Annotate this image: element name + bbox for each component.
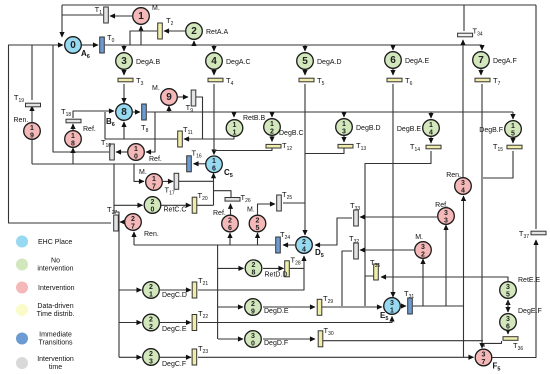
svg-text:Ref.: Ref.: [149, 156, 162, 163]
wire arc T15 out: [483, 151, 513, 178]
wire rail x217 down: [217, 245, 219, 339]
svg-text:2: 2: [421, 251, 425, 258]
svg-text:intervention: intervention: [37, 266, 73, 273]
wire arc T26 out: [214, 191, 231, 197]
place P9 (M): [152, 85, 177, 105]
svg-text:1: 1: [138, 11, 144, 22]
svg-text:2: 2: [256, 217, 260, 224]
transition T25: [277, 190, 293, 211]
wire arc up into P26: [229, 233, 231, 245]
wire arc T1 out to left rail: [62, 14, 103, 16]
transition T1: [95, 5, 109, 23]
wire arc P23 to T23: [160, 356, 191, 358]
wire arc T19 up to bus: [31, 45, 33, 100]
transition T6: [387, 76, 413, 87]
svg-text:2: 2: [149, 324, 153, 331]
wire arc P3 to T3: [123, 70, 125, 75]
wire arc into P11: [233, 112, 235, 117]
svg-text:M.: M.: [139, 169, 147, 176]
wire arc into P5: [304, 45, 306, 51]
wire arc to P28: [218, 267, 244, 269]
svg-text:7: 7: [482, 359, 486, 366]
svg-text:6: 6: [506, 323, 510, 330]
svg-text:7: 7: [478, 55, 484, 66]
svg-text:1: 1: [212, 158, 216, 165]
transition T37: [519, 229, 546, 240]
wire arc T31 out: [413, 305, 463, 307]
svg-text:Ren.: Ren.: [446, 172, 461, 179]
wire rail T37 up: [535, 5, 537, 229]
wire rail T24 outputs: [134, 244, 275, 246]
svg-text:8: 8: [252, 270, 256, 277]
wire arc P35 P36 down: [507, 301, 509, 312]
svg-text:3: 3: [444, 217, 448, 224]
wire arc into P6: [392, 45, 394, 50]
wire arc up into P18: [72, 148, 74, 164]
svg-text:Ref.: Ref.: [435, 202, 448, 209]
wire arc P30 to T30: [263, 338, 315, 340]
wire arc into P14: [430, 112, 432, 118]
wire arc T22 out to P31: [198, 317, 392, 323]
wire arc up into P1: [140, 26, 142, 45]
wire arc up into P2: [193, 41, 195, 45]
transition T20: [192, 191, 208, 213]
wire arc P20 to T20: [162, 204, 191, 206]
place P1 (M): [133, 5, 160, 24]
svg-text:3: 3: [461, 180, 465, 187]
svg-text:8: 8: [121, 107, 127, 118]
place P4 (DegA.C): [206, 53, 251, 70]
legend item Data-driven: [16, 303, 74, 318]
svg-text:M.: M.: [415, 234, 423, 241]
wire arc T2 out: [130, 31, 157, 45]
wire arc T29 out to P31: [322, 306, 382, 308]
transition T10: [101, 138, 114, 160]
wire arc T12 in: [271, 136, 273, 142]
transition T15: [493, 142, 522, 153]
wire top rail: [62, 4, 536, 6]
wire arc P22 to T22: [160, 322, 191, 324]
svg-text:Intervention: Intervention: [38, 285, 75, 292]
wire arc T33 out: [315, 218, 352, 245]
place P24 (D5): [296, 237, 324, 259]
wire arc T18 to P8: [73, 111, 114, 118]
transition T28: [285, 256, 301, 277]
wire arc P10 to T10: [116, 151, 127, 153]
transition T16: [187, 149, 202, 172]
wire arc up into P19: [31, 141, 33, 164]
legend item EHC Place: [16, 236, 72, 248]
svg-text:1: 1: [390, 307, 394, 314]
place P37 (F5): [475, 349, 500, 372]
transition T0: [100, 33, 115, 53]
place P15 (DegB.F): [479, 121, 521, 138]
transition T17: [165, 173, 179, 196]
wire arc P9 to T9: [178, 96, 188, 98]
place P25 (M): [247, 207, 266, 232]
wire arc T13 in: [343, 136, 345, 142]
wire arc P33 to T33: [360, 216, 437, 218]
wire rail Ren column down: [463, 196, 465, 357]
place P36 (DegE.F): [500, 308, 542, 330]
svg-text:1: 1: [134, 146, 138, 153]
wire rail down to T34: [463, 5, 465, 31]
transition T9: [186, 90, 196, 114]
svg-text:DegA.C: DegA.C: [226, 59, 251, 66]
svg-text:2: 2: [251, 301, 255, 308]
wire rail x114 down: [113, 164, 115, 214]
place P11 (RetB.B): [226, 115, 265, 136]
wire arc up into P33: [445, 225, 447, 306]
legend item No: [16, 258, 74, 273]
wire arc T28 out: [290, 267, 304, 269]
svg-text:1: 1: [429, 122, 433, 129]
svg-text:9: 9: [166, 92, 172, 103]
place P5 (DegA.D): [297, 53, 342, 70]
svg-text:0: 0: [251, 340, 255, 347]
wire arc T14 in: [430, 137, 432, 143]
wire arc into P3: [123, 45, 125, 51]
svg-text:6: 6: [228, 225, 232, 232]
svg-text:1: 1: [342, 121, 346, 128]
svg-text:DegD.F: DegD.F: [264, 340, 288, 347]
wire arc P5 to T5: [304, 70, 306, 75]
wire arc T9 out: [196, 97, 203, 139]
wire arc into P15: [512, 112, 514, 119]
svg-text:2: 2: [270, 128, 274, 135]
svg-text:7: 7: [152, 183, 156, 190]
svg-text:1: 1: [233, 122, 237, 129]
wire arc T10 out left: [53, 45, 109, 152]
wire arc P37 to T37: [492, 240, 536, 358]
wire arc T27 to P0 via left frame: [9, 45, 112, 223]
svg-text:1: 1: [71, 133, 75, 140]
transition T4: [208, 76, 234, 87]
transition T24: [276, 230, 291, 253]
wire bus T8 outputs: [147, 111, 513, 113]
wire arc T23 out to P37: [198, 356, 474, 358]
svg-text:3: 3: [506, 316, 510, 323]
wire arc T20 out: [197, 204, 214, 206]
wire arc T17 out: [179, 180, 214, 182]
wire arc down into P0 top: [61, 5, 63, 37]
place P12 (DegB.C): [264, 119, 304, 137]
place P17 (M): [139, 169, 162, 190]
wire arc T36 out to P37: [484, 341, 502, 347]
wire arc into P12: [271, 112, 273, 117]
wire arc T15 in: [512, 138, 514, 143]
legend item Intervention: [16, 356, 74, 371]
wire arc T14 out: [365, 151, 431, 306]
transition T26: [225, 193, 251, 204]
wire arc to P21: [119, 289, 142, 291]
svg-text:4: 4: [302, 246, 306, 253]
svg-text:2: 2: [149, 284, 153, 291]
wire arc T32 out: [342, 251, 352, 306]
legend item Intervention: [16, 282, 75, 294]
svg-text:DegD.E: DegD.E: [264, 308, 289, 315]
svg-text:2: 2: [191, 26, 197, 37]
place P27 (Ren): [125, 214, 159, 238]
svg-text:M.: M.: [152, 85, 160, 92]
wire arc into P4: [213, 45, 215, 51]
svg-text:1: 1: [30, 125, 34, 132]
place P13 (DegB.D): [336, 119, 381, 136]
svg-text:No: No: [51, 258, 60, 265]
wire arc P32 to T32: [360, 249, 414, 251]
svg-text:3: 3: [251, 333, 255, 340]
svg-text:M.: M.: [152, 5, 160, 12]
svg-text:2: 2: [252, 262, 256, 269]
place P10 (Ref): [128, 144, 162, 163]
transition T23: [192, 344, 208, 365]
place P29 (DegD.E): [245, 299, 289, 316]
svg-text:5: 5: [506, 291, 510, 298]
svg-text:4: 4: [429, 129, 433, 136]
transition T32: [349, 234, 359, 259]
transition T3: [118, 76, 144, 87]
transition T18: [61, 107, 81, 123]
place P20 (RetC.C): [144, 197, 186, 214]
svg-text:3: 3: [149, 358, 153, 365]
place P0 (A6): [65, 37, 90, 60]
place P33 (Ref): [435, 202, 454, 224]
wire arc P34 to T34: [462, 40, 464, 177]
wire arc to P20: [114, 204, 143, 206]
wire arc P2 to T2: [164, 30, 185, 32]
transition T5: [299, 76, 325, 87]
svg-text:Ref.: Ref.: [83, 126, 96, 133]
wire arc P1 to T1: [110, 15, 132, 17]
place P18 (Ref): [65, 126, 96, 147]
svg-text:9: 9: [251, 308, 255, 315]
wire arc up into P27: [133, 232, 135, 245]
transition T35: [370, 258, 380, 280]
wire arc P0 to T0: [82, 44, 98, 46]
transition T33: [350, 201, 360, 226]
wire arc P36 P35 up: [507, 300, 509, 312]
wire wire T11 line left corner: [105, 112, 124, 139]
svg-text:3: 3: [444, 210, 448, 217]
place P14 (DegB.E): [397, 120, 439, 137]
transition T36: [503, 337, 523, 352]
wire arc P27 to T27: [120, 221, 125, 223]
wire arc P18 to T18: [72, 124, 74, 148]
wire arc up into P32: [422, 259, 424, 306]
svg-text:RetB.B: RetB.B: [243, 115, 266, 122]
wire arc T30 out to P37: [322, 340, 483, 342]
wire arc P21 to T21: [160, 289, 191, 291]
svg-text:Data-driven: Data-driven: [37, 303, 73, 310]
svg-text:Transitions: Transitions: [39, 340, 73, 347]
svg-text:RetC.C: RetC.C: [164, 207, 187, 214]
wire arc P26 to T26: [230, 204, 232, 215]
wire arc P24 to T24: [283, 244, 295, 246]
place P28 (RetD.D): [245, 260, 287, 279]
wire arc P25 to T25: [258, 204, 276, 215]
transition T13: [338, 141, 366, 152]
svg-text:2: 2: [228, 217, 232, 224]
wire arc P17 to T17: [163, 180, 173, 182]
place P2 (RetA.A): [186, 23, 229, 40]
svg-text:0: 0: [70, 40, 76, 51]
svg-text:3: 3: [121, 56, 127, 67]
svg-text:Ren.: Ren.: [144, 231, 159, 238]
svg-text:4: 4: [461, 187, 465, 194]
svg-text:DegB.E: DegB.E: [397, 126, 421, 133]
place P22 (DegC.E): [143, 314, 187, 333]
svg-text:5: 5: [256, 225, 260, 232]
wire arc T25 out: [283, 202, 305, 204]
wire arc P16 to T16: [194, 163, 207, 165]
place P26 (Ref): [213, 210, 238, 232]
svg-text:2: 2: [302, 239, 306, 246]
svg-text:2: 2: [151, 199, 155, 206]
wire arc T12 out: [214, 148, 272, 151]
svg-text:3: 3: [342, 128, 346, 135]
svg-text:DegA.B: DegA.B: [136, 59, 160, 66]
place P6 (DegA.E): [385, 52, 430, 69]
wire arc up into P9: [168, 106, 170, 112]
svg-text:RetD.D: RetD.D: [265, 272, 288, 279]
place P19 (Ren): [14, 117, 41, 139]
transition T7: [475, 76, 501, 87]
svg-text:1: 1: [233, 129, 237, 136]
transition T14: [410, 142, 441, 153]
svg-text:4: 4: [211, 56, 217, 67]
svg-text:7: 7: [131, 223, 135, 230]
svg-text:9: 9: [30, 132, 34, 139]
wire arc P4 to T4: [213, 70, 215, 75]
svg-text:1: 1: [149, 291, 153, 298]
svg-text:8: 8: [71, 140, 75, 147]
wire arc T8 branch to P10: [146, 112, 155, 152]
svg-text:DegA.E: DegA.E: [405, 58, 429, 65]
legend item Immediate: [16, 332, 73, 347]
svg-text:DegB.C: DegB.C: [279, 130, 304, 137]
wire arc into P7: [481, 45, 483, 50]
wire arc to P30: [218, 338, 243, 340]
wire arc P16 bottom feed: [213, 173, 215, 205]
wire arc P7 to T7: [480, 69, 482, 75]
svg-text:M.: M.: [247, 207, 255, 214]
svg-text:3: 3: [390, 300, 394, 307]
transition T27: [107, 205, 118, 231]
wire rail x119 down to C rows: [114, 212, 119, 357]
wire arc P6 to T6: [392, 69, 394, 75]
svg-text:DegB.D: DegB.D: [356, 125, 381, 132]
wire arc P8 to T8: [133, 111, 140, 113]
svg-text:RetE.E: RetE.E: [518, 277, 541, 284]
wire arc P35 to T35: [381, 277, 508, 282]
place P35 (RetE.E): [500, 277, 541, 298]
svg-text:6: 6: [212, 166, 216, 173]
wire arc T4/T12 to P16: [213, 84, 215, 155]
transition T29: [317, 294, 333, 315]
place P31 (E5): [380, 298, 400, 322]
svg-text:3: 3: [482, 351, 486, 358]
wire arc to P23: [119, 356, 142, 358]
transition T2: [158, 16, 174, 39]
transition T8: [141, 104, 149, 134]
svg-text:time: time: [49, 364, 62, 371]
transition T21: [192, 276, 208, 298]
svg-text:DegA.D: DegA.D: [317, 59, 342, 66]
wire arc P19 to T19: [31, 106, 33, 141]
svg-text:0: 0: [134, 153, 138, 160]
transition T11: [178, 125, 193, 147]
place P7 (DegA.F): [473, 52, 517, 69]
transition T19: [14, 93, 41, 107]
svg-text:DegA.F: DegA.F: [493, 58, 517, 65]
wire arc into P13: [343, 112, 345, 117]
transition T22: [192, 309, 208, 331]
wire arc P11 down to T11: [184, 136, 234, 139]
svg-text:Intervention: Intervention: [37, 356, 74, 363]
svg-text:3: 3: [506, 284, 510, 291]
svg-text:DegC.D: DegC.D: [162, 292, 187, 299]
transition T12: [266, 141, 292, 152]
wire arc T6/T14 to P31: [392, 84, 394, 297]
place P8 (B6): [106, 104, 132, 128]
svg-text:6: 6: [390, 55, 396, 66]
wire arc T7/T15 to P37: [481, 84, 483, 348]
wire arc T3 to P8: [123, 84, 125, 103]
wire arc T35 out: [365, 276, 374, 305]
svg-text:Immediate: Immediate: [39, 332, 72, 339]
wire arc P28 to T28: [263, 267, 284, 269]
transition T31: [404, 289, 414, 314]
svg-text:5: 5: [302, 56, 308, 67]
svg-text:1: 1: [152, 176, 156, 183]
svg-text:0: 0: [151, 206, 155, 213]
svg-text:RetA.A: RetA.A: [206, 29, 229, 36]
svg-text:EHC Place: EHC Place: [38, 239, 72, 246]
wire arc T5/T25 to P24: [304, 84, 306, 235]
svg-text:Ren.: Ren.: [14, 117, 29, 124]
wire arc P29 to T29: [263, 306, 315, 308]
svg-text:2: 2: [149, 351, 153, 358]
svg-text:3: 3: [421, 244, 425, 251]
wire arc to P29: [218, 306, 243, 308]
place P16 (C5): [206, 156, 233, 179]
svg-text:2: 2: [131, 216, 135, 223]
place P23 (DegC.F): [143, 349, 186, 368]
place P21 (DegC.D): [143, 282, 187, 299]
svg-text:2: 2: [149, 316, 153, 323]
wire arc P36 to T36: [507, 331, 509, 334]
svg-text:1: 1: [270, 121, 274, 128]
svg-text:1: 1: [511, 123, 515, 130]
wire rail y164: [32, 163, 187, 165]
svg-text:DegB.F: DegB.F: [479, 127, 503, 134]
wire arc T11 to P8 bottom: [124, 122, 177, 139]
place P34 (Ren): [446, 172, 471, 194]
svg-text:DegC.E: DegC.E: [162, 326, 187, 333]
wire arc up into P25: [257, 233, 259, 245]
svg-text:5: 5: [511, 130, 515, 137]
wire arc branch to P17: [134, 164, 144, 181]
place P30 (DegD.F): [245, 331, 288, 348]
place P3 (DegA.B): [116, 53, 161, 70]
wire arc P31 to T31: [401, 305, 406, 307]
svg-text:DegE.F: DegE.F: [518, 308, 542, 315]
svg-text:DegC.F: DegC.F: [162, 361, 186, 368]
svg-text:Time distrib.: Time distrib.: [37, 311, 75, 318]
wire arc T13 out: [305, 148, 344, 154]
wire arc T21 out to P24: [198, 256, 304, 290]
transition T34: [458, 27, 483, 38]
